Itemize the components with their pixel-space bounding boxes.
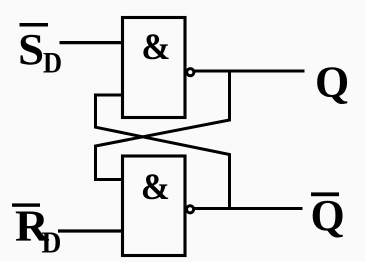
overbar on Q-bar xyxy=(311,192,339,196)
wire: S input to U1 xyxy=(60,41,125,44)
wire: U1 output to Q xyxy=(194,70,305,73)
NAND gate U1 (top) body xyxy=(123,18,186,118)
wire: feedback Q-bar to U1 input (cross) xyxy=(96,95,230,209)
svg-text:D: D xyxy=(43,47,62,80)
wire: feedback Q to U2 input (cross) xyxy=(96,71,230,180)
U1 output inversion bubble xyxy=(187,69,194,76)
wire: U2 output to Q-bar xyxy=(194,207,303,210)
svg-text:D: D xyxy=(42,226,62,260)
svg-text:&: & xyxy=(141,166,170,207)
overbar on S xyxy=(20,23,49,27)
wire: R input to U2 xyxy=(58,229,124,232)
NAND gate U2 (bottom) body xyxy=(123,156,186,256)
svg-text:Q: Q xyxy=(311,191,345,240)
svg-text:S: S xyxy=(18,24,44,73)
svg-text:&: & xyxy=(141,26,170,67)
U2 output inversion bubble xyxy=(187,206,194,213)
svg-text:Q: Q xyxy=(315,58,349,107)
overbar on R xyxy=(12,203,40,206)
